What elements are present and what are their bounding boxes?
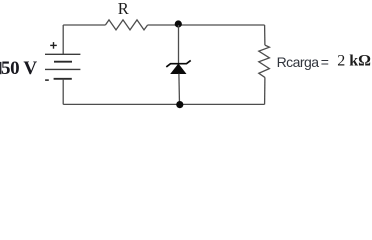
battery V1 plus sign <box>50 42 57 49</box>
svg-text:R: R <box>118 0 129 18</box>
battery V1 plate 3 long <box>45 68 80 70</box>
battery V1 plate 1 long <box>45 53 80 55</box>
node junction dot bottom <box>176 101 183 108</box>
svg-text:50 V: 50 V <box>1 58 37 79</box>
wire right branch lower <box>264 77 266 104</box>
zener diode D1 triangle <box>171 64 186 73</box>
node junction dot top <box>175 20 182 27</box>
svg-text:=: = <box>321 54 329 70</box>
wire right branch upper <box>264 25 266 45</box>
battery V1 plate 4 short <box>54 78 72 80</box>
wire middle branch upper <box>178 25 180 64</box>
resistor R <box>105 20 147 30</box>
battery V1 plate 2 short <box>54 61 72 63</box>
svg-text:Rcarga: Rcarga <box>277 54 320 70</box>
svg-text:2 kΩ: 2 kΩ <box>337 53 371 70</box>
battery V1 minus sign <box>45 79 49 81</box>
wire middle branch lower <box>178 74 181 105</box>
wire left branch lower <box>62 79 64 105</box>
resistor Rcarga zigzag <box>259 45 270 77</box>
label 50 V <box>0 62 1 74</box>
zener diode D1 cathode bar with wings <box>166 60 190 67</box>
wire top-right segment <box>148 24 265 26</box>
wire left branch upper <box>62 25 64 54</box>
wire top-left segment <box>63 24 105 26</box>
wire bottom <box>63 103 264 105</box>
